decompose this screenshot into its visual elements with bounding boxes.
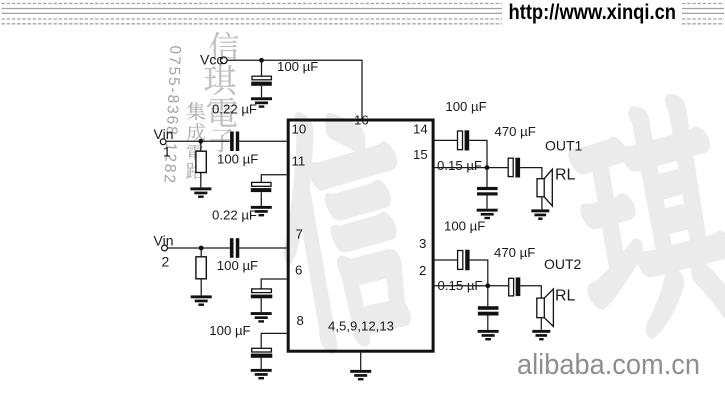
wire ch2 zobel top	[487, 286, 489, 306]
svg-text:100 µF: 100 µF	[209, 323, 250, 338]
resistor R1	[196, 151, 206, 172]
svg-text:7: 7	[296, 227, 303, 242]
svg-text:2: 2	[162, 254, 170, 270]
wire R1 bottom	[200, 172, 202, 187]
wire ch2 speaker to ground	[540, 318, 542, 330]
resistor R2	[196, 257, 206, 279]
svg-text:15: 15	[413, 147, 428, 162]
svg-text:OUT1: OUT1	[545, 138, 583, 154]
ground R2	[191, 295, 212, 306]
IC body U1	[288, 120, 433, 351]
wire pin14 cap to corner	[469, 140, 487, 167]
wire pin3 to cap	[435, 259, 458, 261]
wire pin3 cap to corner	[470, 260, 488, 286]
junction Vcc	[259, 58, 264, 63]
svg-text:Vin: Vin	[154, 233, 174, 249]
svg-text:0.22 µF: 0.22 µF	[212, 101, 257, 116]
svg-text:16: 16	[354, 113, 369, 128]
svg-text:470 µF: 470 µF	[494, 245, 535, 260]
svg-text:11: 11	[292, 154, 306, 169]
svg-text:OUT2: OUT2	[544, 256, 582, 272]
wire ch1 zobel top	[486, 168, 488, 187]
svg-text:0.15 µF: 0.15 µF	[437, 158, 482, 173]
top decorative line 2	[2, 8, 725, 10]
wire ch1 out cap to speaker	[520, 168, 542, 179]
wire pin11 to cap	[261, 175, 287, 183]
top decorative line 1	[2, 4, 725, 24]
svg-text:6: 6	[295, 263, 302, 278]
svg-text:http://www.xinqi.cn: http://www.xinqi.cn	[509, 1, 677, 24]
svg-text:Vcc: Vcc	[200, 52, 223, 68]
wire pin15 row	[435, 167, 509, 169]
svg-text:4,5,9,12,13: 4,5,9,12,13	[328, 319, 394, 334]
capacitor C-out2 470uF plates	[509, 277, 521, 296]
top decorative line 4	[2, 18, 725, 20]
ground pin11-cap	[251, 206, 272, 217]
wire pin6 to cap	[261, 279, 287, 289]
capacitor C-pin8 100uF plates	[251, 348, 272, 358]
capacitor C-in1 100uF series	[230, 132, 239, 152]
capacitor C-out1 470uF plates	[508, 158, 520, 178]
capacitor C-pin11 0.22uF plates	[251, 182, 271, 192]
junction ch1	[485, 165, 490, 170]
wire pin11 cap to ground	[260, 192, 262, 206]
watermark giant char xin	[264, 104, 424, 353]
terminal Vin1	[160, 139, 166, 145]
junction Vin2	[199, 246, 204, 251]
capacitor C-pin6 plates	[251, 289, 272, 298]
svg-text:14: 14	[413, 122, 428, 137]
svg-text:100 µF: 100 µF	[217, 258, 258, 273]
svg-text:RL: RL	[555, 167, 576, 184]
wire cap to pin7	[239, 247, 286, 249]
ground pin6-cap	[251, 312, 272, 323]
ground ch1-zobel	[477, 209, 498, 220]
svg-text:3: 3	[419, 236, 426, 251]
watermark giant char qi	[561, 95, 725, 342]
wire R2 top	[200, 248, 202, 257]
capacitor C-vcc 100uF plates	[251, 76, 272, 86]
wire Vcc rail to pin16	[228, 60, 362, 118]
junction Vin1	[198, 139, 203, 144]
wire ch1 speaker to ground	[541, 197, 543, 210]
svg-text:RL: RL	[555, 288, 576, 305]
capacitor C-in2 100uF series	[230, 238, 239, 258]
speaker RL2	[537, 289, 554, 327]
wire pin14 to cap	[435, 139, 458, 141]
top decorative line 5	[2, 23, 725, 25]
svg-text:100 µF: 100 µF	[444, 218, 485, 233]
watermark vertical brand chars	[209, 32, 238, 61]
svg-text:alibaba.com.cn: alibaba.com.cn	[517, 349, 700, 381]
svg-text:1: 1	[163, 144, 171, 160]
wire ch1 zobel to ground	[486, 196, 488, 209]
wire Vcc bypass branch bottom	[261, 86, 263, 98]
ground IC	[350, 370, 371, 381]
wire Vcc bypass branch top	[261, 60, 263, 76]
terminal Vin2	[162, 245, 168, 251]
wire ch2 out cap to speaker	[520, 286, 541, 298]
svg-text:10: 10	[292, 122, 307, 137]
svg-text:100 µF: 100 µF	[277, 59, 318, 74]
svg-text:100 µF: 100 µF	[217, 151, 258, 166]
svg-text:2: 2	[419, 263, 426, 278]
wire IC ground	[360, 353, 362, 370]
wire cap to pin10	[239, 140, 287, 142]
ground ch2-zobel	[478, 330, 499, 341]
wire pin8 to cap	[261, 333, 287, 348]
capacitor C-pin14 100uF plates	[458, 130, 470, 150]
ground speaker2	[532, 330, 550, 341]
junction ch2	[485, 283, 490, 288]
svg-text:470 µF: 470 µF	[495, 124, 536, 139]
wire R1 top	[200, 141, 202, 151]
terminal Vcc	[221, 57, 228, 64]
wire pin2 row	[435, 285, 509, 287]
capacitor C-z2 0.15uF plates	[478, 306, 499, 315]
ground vcc-cap	[251, 97, 272, 108]
ground R1	[190, 187, 211, 198]
wire pin6 cap to ground	[260, 298, 262, 312]
watermark small chars ji-cheng-dian-lu	[187, 102, 205, 120]
svg-text:0.22 µF: 0.22 µF	[212, 207, 257, 222]
ground speaker1	[531, 209, 549, 220]
wire R2 bottom	[200, 279, 202, 296]
top decorative line 3	[2, 12, 725, 14]
svg-text:100 µF: 100 µF	[445, 99, 486, 114]
wire Vin1 to cap	[166, 140, 230, 142]
capacitor C-z1 0.15uF plates	[477, 187, 498, 196]
wire pin8 cap to ground	[260, 358, 262, 369]
wire ch2 zobel to ground	[487, 316, 489, 330]
wire Vin2 to cap	[168, 247, 230, 249]
capacitor C-pin3 100uF plates	[458, 250, 470, 271]
svg-text:8: 8	[297, 313, 304, 328]
speaker RL1	[537, 169, 552, 206]
svg-text:Vin: Vin	[154, 126, 174, 142]
ground pin8-cap	[251, 369, 272, 380]
